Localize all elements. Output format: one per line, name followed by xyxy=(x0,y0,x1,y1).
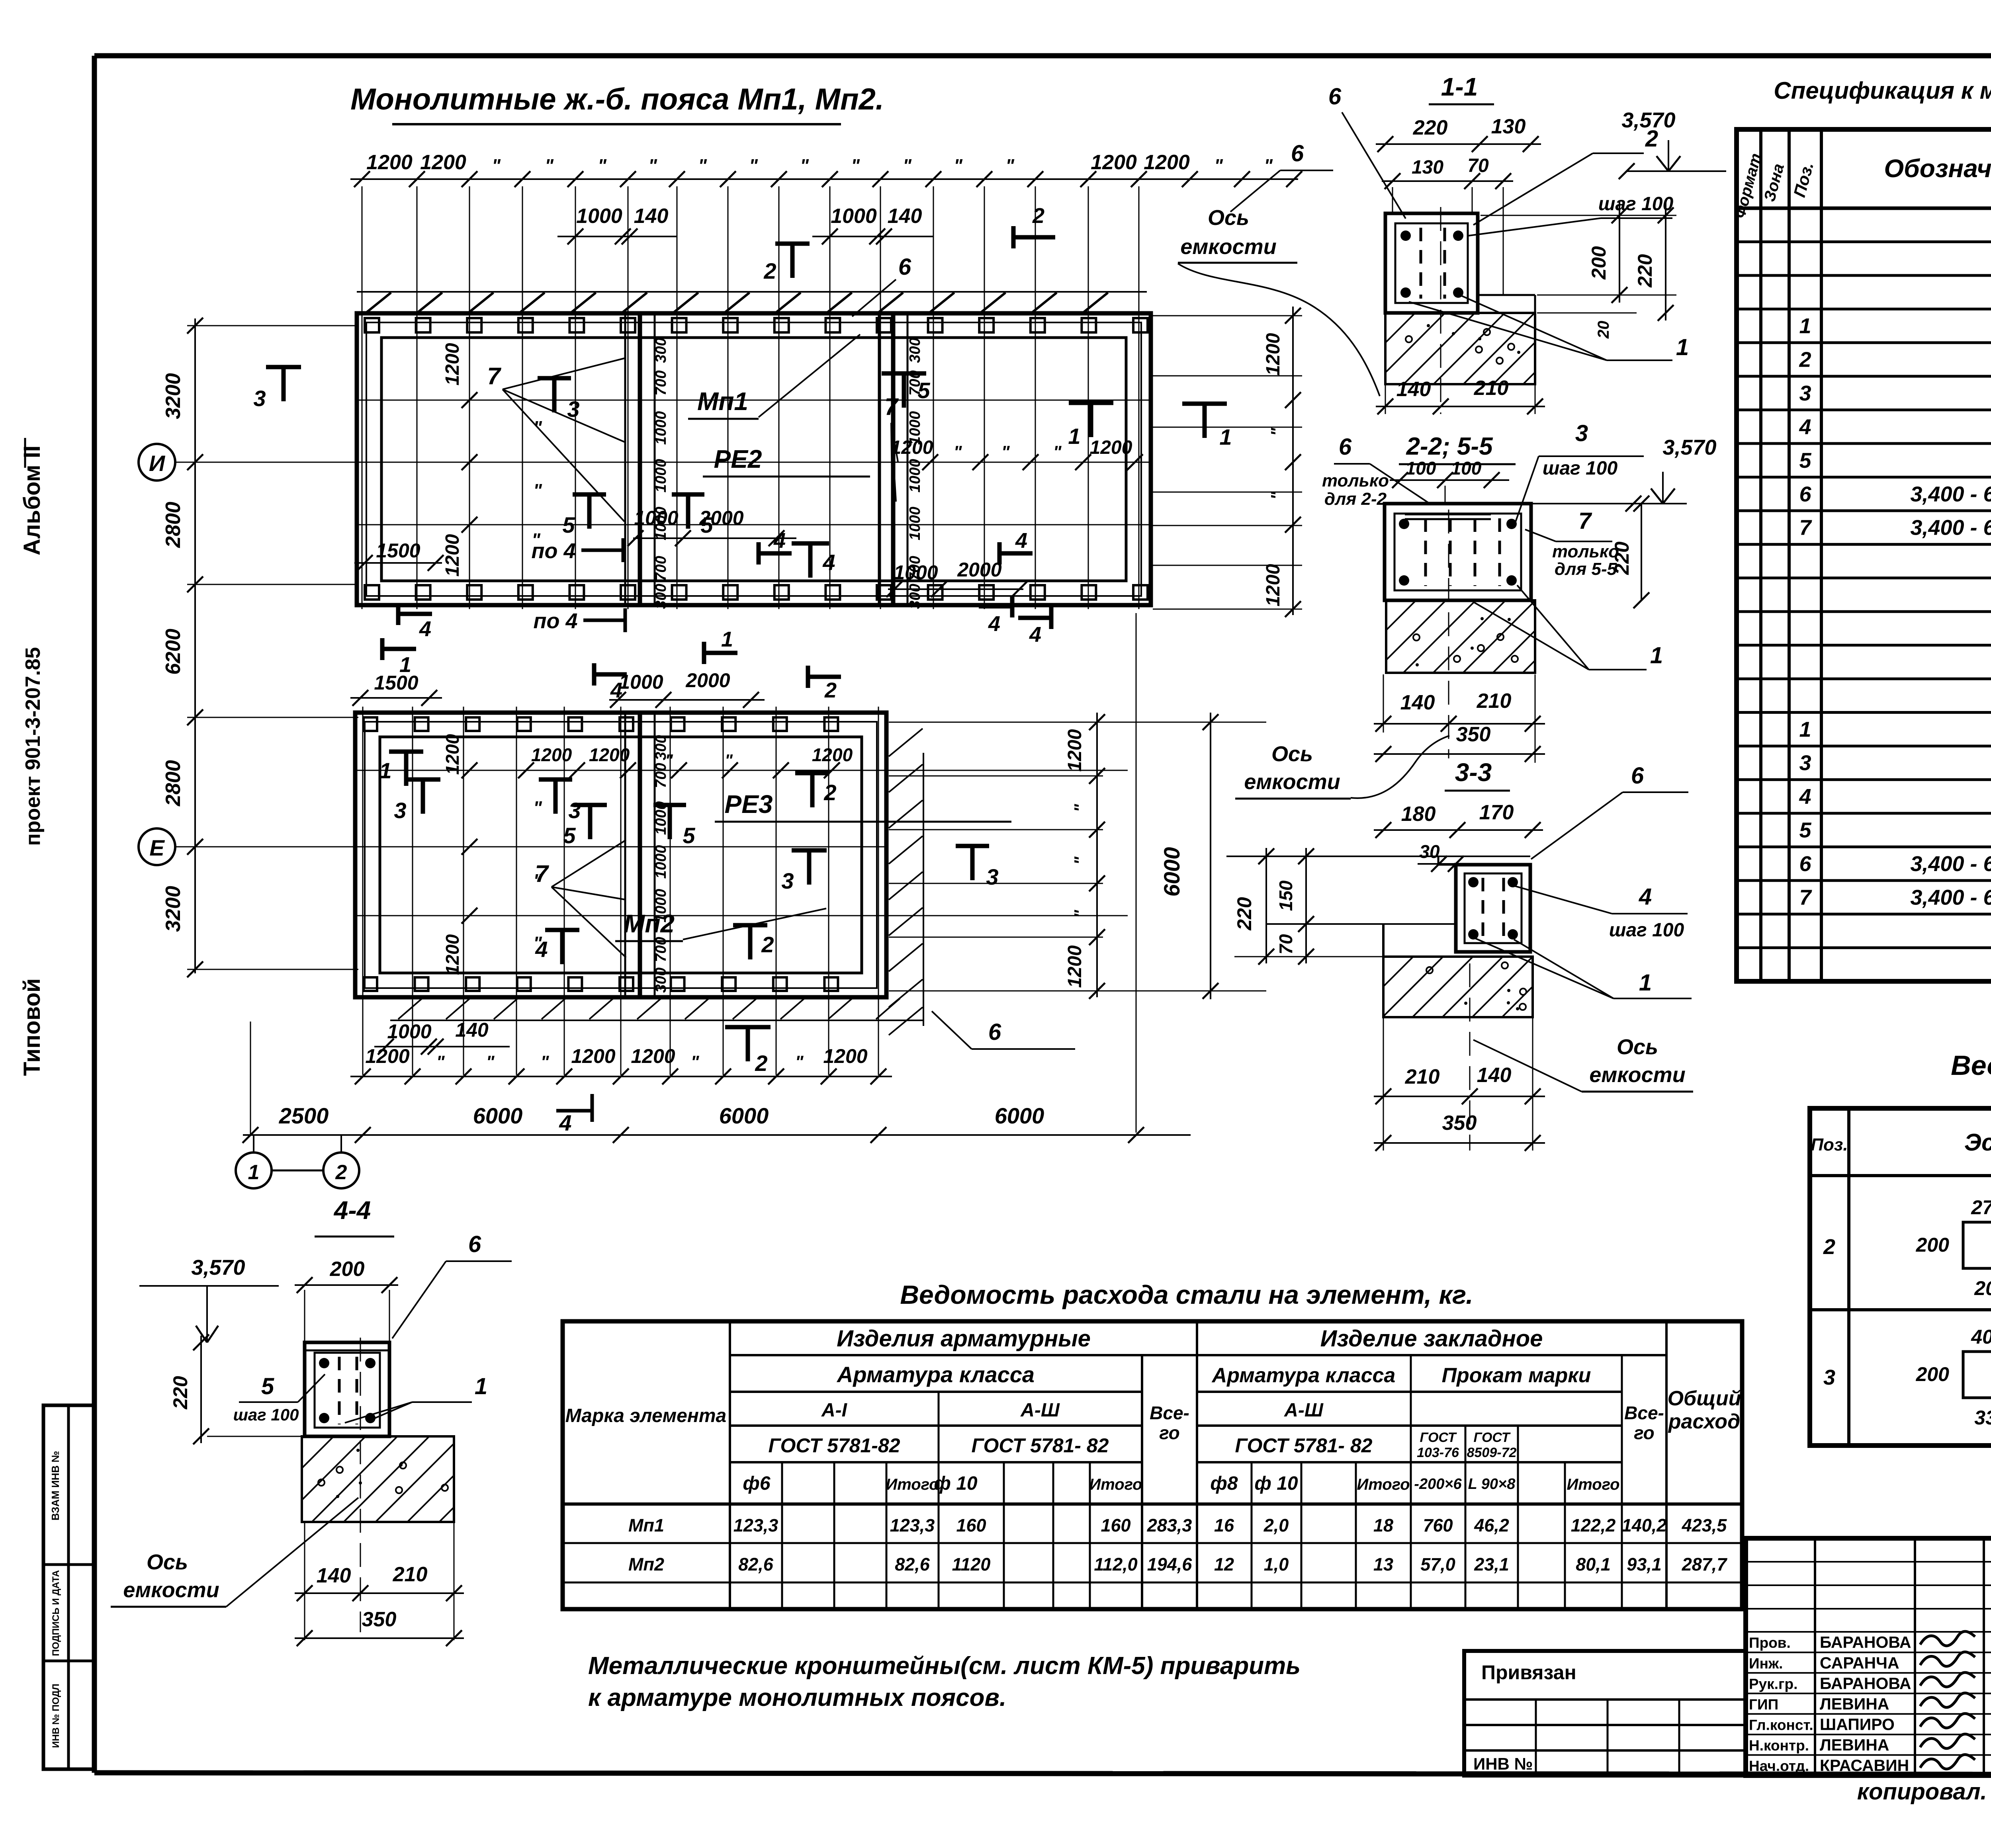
svg-text:Марка элемента: Марка элемента xyxy=(565,1405,727,1426)
section 2-2 axis xyxy=(1448,510,1449,758)
svg-text:4: 4 xyxy=(988,612,1000,636)
svg-text:18: 18 xyxy=(1373,1515,1393,1535)
svg-text:Обозначение: Обозначение xyxy=(1884,154,1991,183)
svg-text:": " xyxy=(436,1052,445,1072)
bottom plan top internal 1200 labels xyxy=(518,762,534,778)
svg-text:го: го xyxy=(1634,1422,1655,1443)
svg-text:1200: 1200 xyxy=(442,934,463,975)
bottom plan embedded plates bottom xyxy=(364,977,377,991)
svg-text:для 2-2: для 2-2 xyxy=(1324,489,1387,509)
svg-text:го: го xyxy=(1159,1422,1180,1443)
svg-text:по 4: по 4 xyxy=(533,609,577,633)
svg-text:330: 330 xyxy=(1974,1407,1991,1429)
svg-text:6000: 6000 xyxy=(473,1103,523,1128)
svg-text:6: 6 xyxy=(1339,434,1352,460)
section 4-4 box xyxy=(305,1342,389,1436)
bottom plan vertical guides xyxy=(362,707,364,1075)
svg-text:Мп1: Мп1 xyxy=(697,387,748,416)
svg-text:Мп1: Мп1 xyxy=(628,1515,664,1535)
svg-text:РЕ3: РЕ3 xyxy=(725,790,773,819)
svg-text:220: 220 xyxy=(169,1376,192,1410)
svg-text:": " xyxy=(903,155,912,176)
svg-text:1200: 1200 xyxy=(420,151,466,174)
svg-text:Арматура класса: Арматура класса xyxy=(1211,1364,1396,1387)
vertical guide lines top plan xyxy=(362,186,363,609)
main axis dimension 2500/6000/6000/6000 xyxy=(243,1134,1191,1136)
section 3-3 box xyxy=(1456,865,1530,952)
title block signature columns xyxy=(1814,1538,1816,1776)
svg-text:": " xyxy=(598,155,607,176)
axis circle 1 xyxy=(253,1135,254,1153)
svg-text:6: 6 xyxy=(468,1231,481,1257)
svg-text:Привязан: Привязан xyxy=(1481,1661,1576,1684)
svg-text:4: 4 xyxy=(1029,623,1041,647)
section 4-4 stirrups xyxy=(338,1357,341,1424)
svg-text:700: 700 xyxy=(653,556,669,581)
svg-text:2: 2 xyxy=(1032,204,1044,228)
axis Е line xyxy=(175,846,888,848)
svg-text:1000: 1000 xyxy=(653,845,669,879)
svg-text:Общий: Общий xyxy=(1668,1387,1741,1410)
svg-text:Типовой: Типовой xyxy=(19,978,45,1076)
bottom plan walls inner xyxy=(380,737,862,973)
corner mark 4 mid xyxy=(592,663,597,686)
svg-text:760: 760 xyxy=(1423,1515,1453,1535)
svg-text:1000: 1000 xyxy=(653,889,669,923)
svg-text:5: 5 xyxy=(563,823,576,848)
svg-text:1200: 1200 xyxy=(1263,333,1284,375)
svg-text:103-76: 103-76 xyxy=(1417,1445,1459,1460)
svg-text:194,6: 194,6 xyxy=(1147,1554,1193,1575)
svg-text:Рук.гр.: Рук.гр. xyxy=(1749,1676,1797,1692)
section mark 4 below xyxy=(556,1109,592,1113)
svg-text:270: 270 xyxy=(1971,1196,1991,1219)
svg-text:287,7: 287,7 xyxy=(1682,1554,1728,1575)
svg-text:1,0: 1,0 xyxy=(1264,1554,1289,1575)
svg-text:": " xyxy=(492,155,501,176)
svg-text:Арматура класса: Арматура класса xyxy=(836,1362,1035,1387)
svg-text:только: только xyxy=(1322,471,1389,490)
svg-text:70: 70 xyxy=(1467,155,1489,176)
section 3-3 top plate xyxy=(1226,856,1530,857)
svg-text:1000: 1000 xyxy=(907,507,923,541)
stamp row Нач.отд. xyxy=(1746,1754,1991,1756)
corner mark 1 mid xyxy=(702,642,706,664)
svg-text:1: 1 xyxy=(1639,970,1652,996)
details table left xyxy=(1810,1108,1991,1446)
stamp row ГИП xyxy=(1746,1693,1991,1694)
1000/2000 dim right compartment xyxy=(888,588,1023,590)
svg-text:200: 200 xyxy=(1588,246,1610,280)
svg-text:1200: 1200 xyxy=(1064,729,1085,772)
svg-text:700: 700 xyxy=(653,370,669,395)
corner mark 4 right xyxy=(997,542,1002,565)
svg-text:БАРАНОВА: БАРАНОВА xyxy=(1820,1633,1911,1651)
svg-text:150: 150 xyxy=(1275,880,1296,911)
adjacent slab hatch band above top plan xyxy=(357,291,1147,293)
svg-text:1120: 1120 xyxy=(952,1554,991,1575)
svg-text:Монолитные ж.-б. пояса Мп1,: Монолитные ж.-б. пояса Мп1, Мп2. xyxy=(350,82,884,116)
svg-text:1500: 1500 xyxy=(376,539,420,562)
svg-text:": " xyxy=(1001,442,1010,462)
svg-text:ф6: ф6 xyxy=(743,1473,770,1494)
section 3-3 concrete xyxy=(1383,957,1533,1017)
svg-text:": " xyxy=(1071,856,1090,865)
section 3-3 dims 210/140 xyxy=(1383,1018,1384,1151)
svg-text:ГОСТ 5781-82: ГОСТ 5781-82 xyxy=(768,1434,900,1457)
embedded plates top wall xyxy=(365,318,379,332)
section 3-3 left step xyxy=(1266,923,1456,925)
svg-text:Альбом II: Альбом II xyxy=(19,445,45,555)
svg-text:": " xyxy=(795,1052,804,1072)
svg-text:1200: 1200 xyxy=(365,1045,409,1067)
svg-text:13: 13 xyxy=(1373,1554,1393,1575)
svg-text:": " xyxy=(533,480,542,501)
svg-text:140: 140 xyxy=(1477,1064,1512,1087)
svg-text:ЛЕВИНА: ЛЕВИНА xyxy=(1820,1736,1889,1754)
svg-text:ф 10: ф 10 xyxy=(934,1473,978,1494)
svg-text:4: 4 xyxy=(1799,415,1811,439)
svg-text:ИНВ № ПОДЛ: ИНВ № ПОДЛ xyxy=(51,1684,61,1748)
svg-text:1200: 1200 xyxy=(1091,151,1137,174)
svg-text:2: 2 xyxy=(335,1161,347,1184)
section 4-4 concrete xyxy=(302,1436,454,1522)
bottom plan horizontal guides xyxy=(355,770,1128,771)
svg-text:Нач.отд.: Нач.отд. xyxy=(1749,1758,1809,1774)
svg-text:ф 10: ф 10 xyxy=(1254,1473,1298,1494)
svg-text:220: 220 xyxy=(1634,254,1656,288)
svg-text:Ось: Ось xyxy=(1208,206,1249,230)
hatch right of bottom plan xyxy=(889,729,923,756)
svg-text:": " xyxy=(1264,155,1273,176)
svg-text:": " xyxy=(1005,155,1015,176)
svg-text:для 5-5: для 5-5 xyxy=(1555,559,1617,579)
svg-text:1-1: 1-1 xyxy=(1441,72,1478,101)
svg-text:": " xyxy=(1071,909,1090,918)
bottom plan walls mid xyxy=(365,722,877,988)
axis И circle xyxy=(139,444,175,481)
svg-text:2: 2 xyxy=(1823,1235,1835,1259)
svg-text:": " xyxy=(800,155,809,176)
svg-text:220: 220 xyxy=(1233,897,1256,931)
svg-text:5: 5 xyxy=(562,512,575,537)
svg-text:1200: 1200 xyxy=(1090,437,1132,458)
svg-text:170: 170 xyxy=(1479,801,1514,824)
svg-text:Ось: Ось xyxy=(147,1550,188,1574)
svg-text:4: 4 xyxy=(419,617,431,641)
svg-text:шаг 100: шаг 100 xyxy=(1598,193,1674,215)
svg-text:6000: 6000 xyxy=(719,1103,769,1128)
svg-text:80,1: 80,1 xyxy=(1576,1554,1611,1575)
svg-text:300: 300 xyxy=(653,967,669,992)
section 2-2 box xyxy=(1385,504,1531,600)
left bottom small stamp table xyxy=(43,1405,94,1769)
svg-text:3: 3 xyxy=(1575,420,1588,446)
svg-text:160: 160 xyxy=(1101,1515,1130,1535)
svg-text:": " xyxy=(1071,803,1090,812)
svg-text:220: 220 xyxy=(1611,541,1633,575)
svg-text:4-4: 4-4 xyxy=(333,1196,371,1225)
svg-text:2: 2 xyxy=(1799,348,1811,372)
horizontal guide lines top plan xyxy=(357,400,1151,401)
bottom plan divider wall xyxy=(624,713,626,997)
svg-text:1000: 1000 xyxy=(653,459,669,493)
section 2-2 dims 140/210 xyxy=(1383,674,1384,733)
section 2-2 stirrup bars xyxy=(1424,518,1427,586)
svg-text:": " xyxy=(954,442,962,462)
svg-text:2-2; 5-5: 2-2; 5-5 xyxy=(1406,433,1493,460)
svg-text:": " xyxy=(533,797,542,818)
svg-text:шаг 100: шаг 100 xyxy=(1609,920,1684,941)
svg-text:6: 6 xyxy=(1799,852,1811,876)
svg-text:Поз.: Поз. xyxy=(1811,1135,1848,1155)
corner mark 2 mid xyxy=(806,666,810,688)
svg-text:700: 700 xyxy=(653,763,669,788)
stamp row Пров. xyxy=(1746,1631,1991,1633)
svg-text:ВЗАМ ИНВ №: ВЗАМ ИНВ № xyxy=(49,1451,61,1521)
svg-text:1000: 1000 xyxy=(907,459,923,493)
svg-text:только: только xyxy=(1552,542,1619,561)
svg-text:ЛЕВИНА: ЛЕВИНА xyxy=(1820,1695,1889,1713)
right side vertical dim 1200s of bottom plan xyxy=(1096,713,1098,997)
svg-text:7: 7 xyxy=(1799,516,1812,540)
svg-text:Металлические кронштейны(см.: Металлические кронштейны(см. лист КМ-5) … xyxy=(588,1652,1301,1680)
svg-text:1: 1 xyxy=(1799,314,1811,338)
svg-text:140: 140 xyxy=(1400,691,1435,714)
section marks bottom plan xyxy=(389,750,423,754)
section 1-1 flange xyxy=(1478,294,1535,296)
section 2-2 right dim 220 xyxy=(1641,504,1642,600)
svg-text:210: 210 xyxy=(1474,377,1509,400)
svg-text:100: 100 xyxy=(1451,458,1482,479)
svg-text:7: 7 xyxy=(884,393,899,420)
svg-text:200: 200 xyxy=(1974,1277,1991,1299)
svg-text:5: 5 xyxy=(683,823,695,848)
svg-text:": " xyxy=(1267,427,1287,436)
top dimension 1000/140 left xyxy=(557,236,677,237)
svg-text:1200: 1200 xyxy=(1064,945,1085,988)
svg-text:140: 140 xyxy=(1396,378,1431,401)
svg-text:БАРАНОВА: БАРАНОВА xyxy=(1820,1674,1911,1692)
svg-text:123,3: 123,3 xyxy=(733,1515,778,1535)
section 4-4 left dim 220 xyxy=(200,1336,202,1443)
top plan walls mid line xyxy=(366,322,1141,596)
svg-text:200: 200 xyxy=(1916,1234,1950,1256)
svg-text:30: 30 xyxy=(1419,841,1440,862)
svg-text:140,2: 140,2 xyxy=(1622,1515,1667,1535)
svg-text:2800: 2800 xyxy=(162,502,185,548)
inner vertical dim x1179 labels xyxy=(462,392,477,408)
svg-text:5: 5 xyxy=(1799,449,1811,473)
svg-text:1: 1 xyxy=(721,627,733,651)
svg-text:ПОДПИСЬ И ДАТА: ПОДПИСЬ И ДАТА xyxy=(51,1570,61,1656)
svg-text:": " xyxy=(1214,155,1223,176)
svg-text:300: 300 xyxy=(653,338,669,363)
section 1-1 stirrup bars xyxy=(1420,228,1422,299)
svg-text:Прокат марки: Прокат марки xyxy=(1442,1364,1591,1387)
top plan walls inner face xyxy=(381,338,1126,581)
svg-text:300: 300 xyxy=(653,735,669,760)
svg-text:Итого: Итого xyxy=(1089,1476,1142,1493)
svg-text:1200: 1200 xyxy=(442,534,463,576)
svg-text:160: 160 xyxy=(956,1515,986,1535)
svg-text:7: 7 xyxy=(487,363,501,389)
svg-text:2800: 2800 xyxy=(162,760,185,807)
svg-text:5: 5 xyxy=(261,1373,274,1399)
svg-text:3,400 - 6/76: 3,400 - 6/76 xyxy=(1910,482,1991,506)
title block signature rows xyxy=(1746,1561,1991,1563)
section 4-4 dims 140/210 xyxy=(304,1523,305,1640)
svg-text:140: 140 xyxy=(888,205,922,228)
svg-text:7: 7 xyxy=(1578,508,1592,534)
svg-text:283,3: 283,3 xyxy=(1147,1515,1192,1535)
svg-text:2000: 2000 xyxy=(957,559,1001,581)
svg-text:емкости: емкости xyxy=(1244,770,1340,794)
svg-text:23,1: 23,1 xyxy=(1474,1554,1509,1575)
svg-text:1000: 1000 xyxy=(653,411,669,445)
svg-text:Эскиз: Эскиз xyxy=(1964,1129,1991,1156)
svg-text:1200: 1200 xyxy=(589,744,630,765)
svg-text:3: 3 xyxy=(1799,751,1811,775)
svg-text:2: 2 xyxy=(761,932,774,957)
right side 6000 dim xyxy=(1210,713,1211,999)
section 1-1 axis line xyxy=(1440,207,1441,414)
svg-text:300: 300 xyxy=(653,584,669,609)
svg-text:1: 1 xyxy=(379,758,391,783)
axis Е circle xyxy=(139,828,175,865)
svg-text:2: 2 xyxy=(823,780,836,805)
svg-text:1500: 1500 xyxy=(374,672,418,694)
svg-text:12: 12 xyxy=(1214,1554,1234,1575)
svg-text:ГОСТ: ГОСТ xyxy=(1420,1430,1457,1445)
svg-text:": " xyxy=(533,933,542,953)
bottom plan walls outer xyxy=(355,713,886,997)
svg-text:ГИП: ГИП xyxy=(1749,1696,1778,1713)
Ось емкости wavy leader xyxy=(1178,264,1380,396)
svg-text:3: 3 xyxy=(568,798,581,823)
svg-text:140: 140 xyxy=(455,1019,489,1041)
bottom plan embedded plates top xyxy=(364,717,377,731)
svg-text:1200: 1200 xyxy=(812,744,853,765)
svg-text:А-Ш: А-Ш xyxy=(1020,1400,1060,1421)
svg-text:3: 3 xyxy=(1799,381,1811,405)
section 1-1 dims 140/210 xyxy=(1385,385,1386,414)
svg-text:1000: 1000 xyxy=(907,411,923,445)
svg-text:по 4: по 4 xyxy=(531,539,575,563)
svg-text:": " xyxy=(725,751,733,770)
top plan walls outer xyxy=(357,313,1151,605)
svg-text:350: 350 xyxy=(1442,1112,1477,1135)
svg-text:": " xyxy=(954,155,963,176)
svg-text:Итого: Итого xyxy=(886,1476,939,1493)
corner mark 4 under divider xyxy=(757,542,761,565)
svg-text:112,0: 112,0 xyxy=(1094,1554,1137,1575)
svg-text:4: 4 xyxy=(1799,785,1811,809)
steel table grid xyxy=(563,1321,1742,1609)
svg-text:Ведомость деталей: Ведомость деталей xyxy=(1951,1050,1991,1081)
svg-text:70: 70 xyxy=(1275,934,1296,955)
МП1 leader xyxy=(759,334,860,417)
svg-text:6: 6 xyxy=(988,1019,1001,1045)
svg-text:6: 6 xyxy=(1799,482,1811,506)
svg-text:1: 1 xyxy=(1676,334,1689,360)
svg-text:4: 4 xyxy=(773,529,786,553)
svg-text:140: 140 xyxy=(317,1564,351,1587)
hatch zone boundary vertical xyxy=(923,753,924,1026)
1200 series dim below bottom plan xyxy=(350,1076,892,1077)
svg-text:3,400 - 6/76: 3,400 - 6/76 xyxy=(1910,885,1991,909)
svg-text:1000: 1000 xyxy=(576,205,622,228)
svg-text:": " xyxy=(486,1052,495,1072)
svg-text:700: 700 xyxy=(653,937,669,962)
svg-text:ГОСТ: ГОСТ xyxy=(1474,1430,1511,1445)
top dimension 1000/140 right xyxy=(812,236,933,237)
section 3-3 left dims 220/150/70 xyxy=(1265,848,1267,963)
svg-text:Все-: Все- xyxy=(1150,1403,1189,1423)
corner mark 4 left below top plan xyxy=(396,603,401,625)
svg-text:ШАПИРО: ШАПИРО xyxy=(1820,1715,1895,1734)
svg-text:6: 6 xyxy=(1631,763,1644,789)
svg-text:РЕ2: РЕ2 xyxy=(714,445,762,473)
left vertical dimension line xyxy=(194,318,196,973)
svg-text:1200: 1200 xyxy=(631,1045,675,1067)
svg-text:3: 3 xyxy=(394,798,406,823)
svg-text:8509-72: 8509-72 xyxy=(1467,1445,1517,1460)
svg-text:1200: 1200 xyxy=(571,1045,615,1067)
svg-text:": " xyxy=(541,1052,550,1072)
svg-text:проект 901-3-207.85: проект 901-3-207.85 xyxy=(22,647,45,846)
svg-text:": " xyxy=(851,155,860,176)
svg-text:200: 200 xyxy=(330,1258,365,1281)
svg-text:130: 130 xyxy=(1491,115,1526,138)
svg-text:82,6: 82,6 xyxy=(895,1554,930,1575)
svg-text:": " xyxy=(749,155,758,176)
svg-text:350: 350 xyxy=(362,1608,397,1631)
svg-text:ГОСТ 5781- 82: ГОСТ 5781- 82 xyxy=(1235,1434,1373,1457)
svg-text:2500: 2500 xyxy=(279,1103,329,1128)
svg-text:2: 2 xyxy=(755,1051,767,1076)
specification table grid xyxy=(1737,129,1991,981)
svg-text:300: 300 xyxy=(907,338,923,363)
svg-text:Инж.: Инж. xyxy=(1749,1655,1783,1672)
svg-text:123,3: 123,3 xyxy=(890,1515,935,1535)
svg-text:300: 300 xyxy=(907,584,923,609)
svg-text:Мп2: Мп2 xyxy=(628,1554,664,1575)
svg-text:емкости: емкости xyxy=(1589,1063,1685,1087)
stamp row Рук.гр. xyxy=(1746,1672,1991,1674)
svg-text:82,6: 82,6 xyxy=(738,1554,774,1575)
svg-text:Итого: Итого xyxy=(1567,1476,1619,1493)
svg-text:1000: 1000 xyxy=(831,205,877,228)
svg-text:КРАСАВИН: КРАСАВИН xyxy=(1820,1756,1909,1775)
rotated 1200 dims inside bottom plan left compartment xyxy=(462,762,477,778)
top dimension line 1200 series xyxy=(350,178,1298,180)
hatch below bottom plan xyxy=(390,1020,924,1021)
svg-text:1: 1 xyxy=(475,1373,487,1399)
svg-text:3-3: 3-3 xyxy=(1455,758,1492,787)
svg-text:3,570: 3,570 xyxy=(1662,436,1716,459)
svg-text:400: 400 xyxy=(1971,1326,1991,1348)
embedded plates bottom wall xyxy=(365,585,379,600)
section 2-2 rebar dots xyxy=(1399,519,1409,529)
svg-text:6: 6 xyxy=(1328,84,1342,109)
svg-text:1200: 1200 xyxy=(823,1045,867,1067)
svg-text:122,2: 122,2 xyxy=(1571,1515,1616,1535)
svg-text:Все-: Все- xyxy=(1624,1403,1664,1423)
svg-text:6200: 6200 xyxy=(162,629,185,675)
svg-text:3: 3 xyxy=(986,864,998,889)
svg-text:210: 210 xyxy=(393,1563,428,1586)
